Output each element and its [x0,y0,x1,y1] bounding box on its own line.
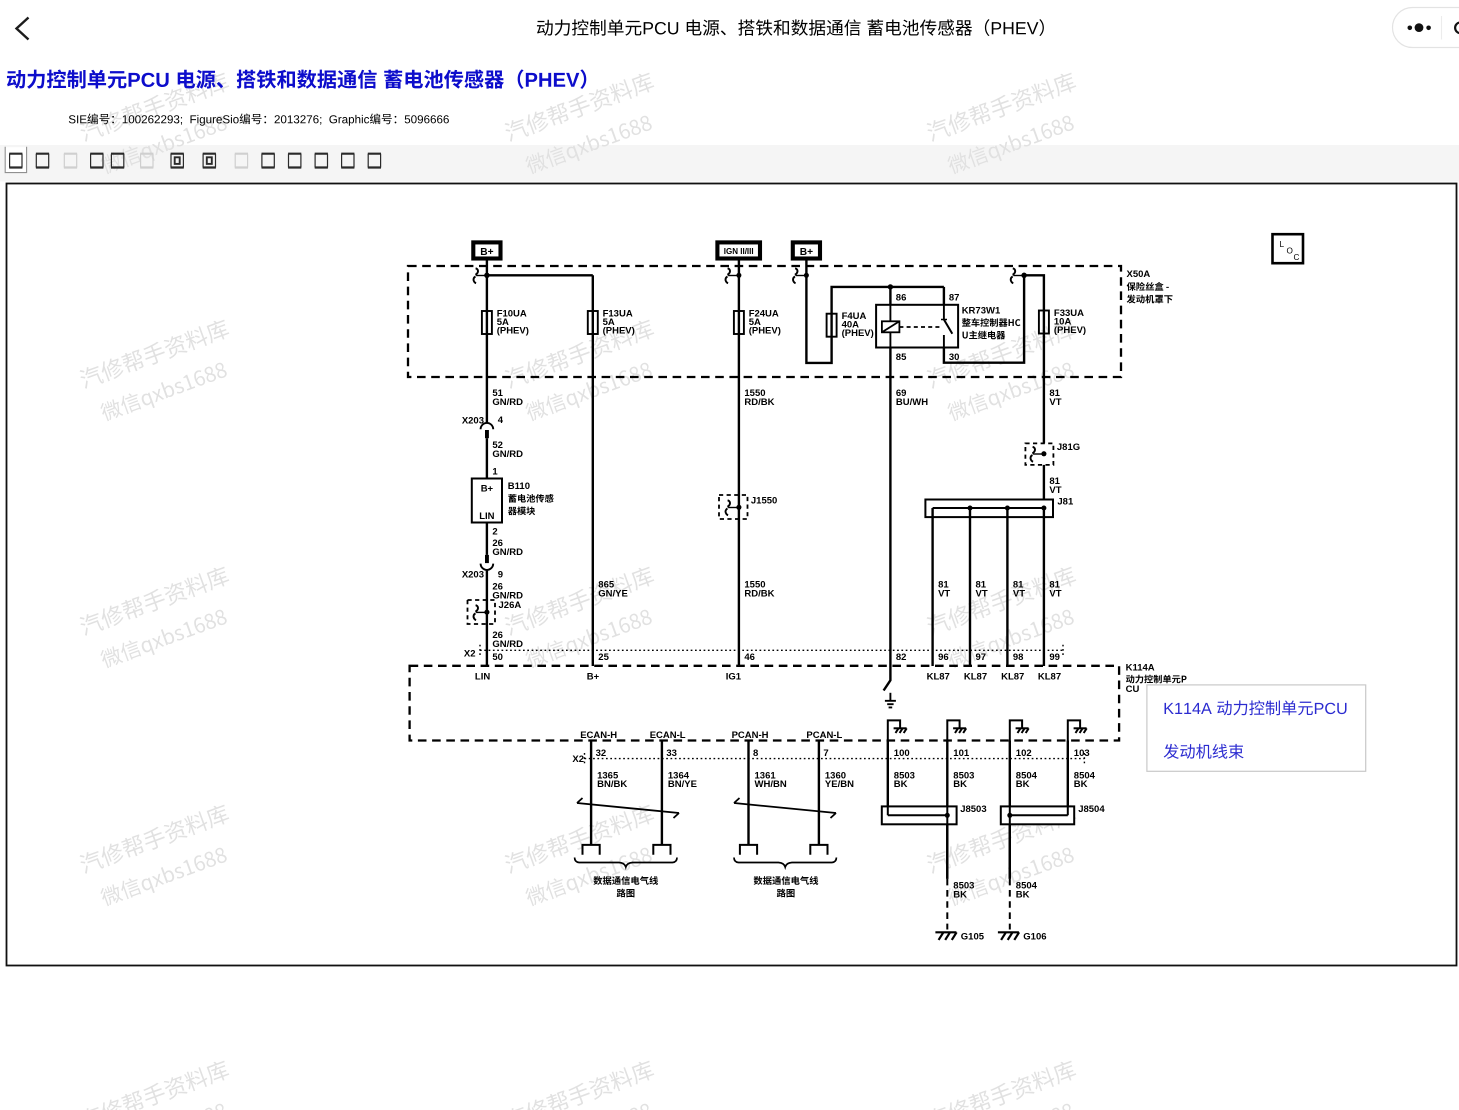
splice J26A dashed box [468,600,496,624]
relay coil [889,305,891,322]
connector clip at X50A for IGN [727,268,730,274]
svg-text:VT: VT [1049,485,1061,496]
earth ground symbol inside PCU [889,693,891,701]
wires 8504 BK from pins 102/103 [1009,741,1011,879]
svg-text:YE/BN: YE/BN [825,779,854,790]
svg-text:30: 30 [949,352,960,363]
svg-text:32: 32 [596,748,607,759]
splice pack J81 [925,500,1053,518]
svg-text:GN/YE: GN/YE [598,588,628,599]
svg-text:BN/BK: BN/BK [597,779,627,790]
page heading [7,69,586,88]
svg-text:9: 9 [498,569,503,580]
wire relay 30 output to F33UA node [944,275,1024,362]
SIE numbers line [69,113,449,125]
svg-text:KL87: KL87 [927,672,950,683]
brace PCAN [734,858,836,868]
splice J81G clip [1032,447,1035,453]
svg-text:82: 82 [896,652,907,663]
data link note ECAN [593,876,658,885]
svg-text:103: 103 [1074,748,1090,759]
fuse F24UA [734,311,744,334]
wires 8503 BK from pins 100/101 [887,741,889,816]
svg-text:X2: X2 [464,649,476,660]
svg-text:J26A: J26A [499,600,522,611]
fuse box X50A dashed outline [408,266,1121,377]
svg-text:BK: BK [953,889,967,900]
connector X203 pin 9 [485,555,489,563]
svg-text:KL87: KL87 [964,672,987,683]
svg-text:33: 33 [666,748,677,759]
svg-text:BK: BK [1016,889,1030,900]
wire to relay pin 87 [943,287,945,305]
fuse F13UA [588,311,598,334]
svg-text:B+: B+ [481,484,494,495]
svg-text:KL87: KL87 [1038,672,1061,683]
data link note PCAN [754,876,819,885]
relay KR73W1 box [876,305,958,348]
fuse F4UA [827,314,837,337]
svg-text:GN/RD: GN/RD [492,547,523,558]
wire 8503 BK to G105 [946,824,948,879]
svg-text:KR73W1: KR73W1 [962,306,1001,317]
connector X203 pin 4 [481,423,494,429]
svg-text:B+: B+ [800,247,813,258]
svg-text:X50A: X50A [1127,269,1151,280]
connector clip at X50A for B+1 [475,268,478,274]
brace ECAN [575,858,677,868]
wire 8504 BK to G106 [1009,824,1011,879]
svg-text:J81G: J81G [1057,442,1080,453]
svg-text:VT: VT [976,588,988,599]
svg-text:J81: J81 [1057,497,1074,508]
wire B+1 into fuse box [486,260,488,424]
svg-text:BK: BK [1074,779,1088,790]
svg-text:X203: X203 [462,569,484,580]
svg-text:ECAN-L: ECAN-L [650,730,686,741]
svg-text:VT: VT [1049,588,1061,599]
splice J1550 clip [727,500,730,506]
wire B+2 into fuse box [806,260,831,363]
svg-text:(PHEV): (PHEV) [497,325,529,336]
battery sensor module B110 [472,479,502,523]
svg-text:G106: G106 [1023,932,1046,943]
connector X2 dotted line (upper) [480,649,1063,651]
LOC legend box [1273,234,1304,263]
svg-text:CU: CU [1126,684,1140,695]
svg-text:B+: B+ [480,247,493,258]
svg-text:102: 102 [1016,748,1032,759]
relay switch contact [943,305,945,320]
svg-text:VT: VT [1013,588,1025,599]
svg-text:BK: BK [894,779,908,790]
splice pack J8504 [1001,806,1074,824]
fuse F10UA [482,311,492,334]
wechat capsule [1393,8,1459,48]
wire 865 GN/YE [592,275,594,666]
diagram frame [7,184,1457,966]
wire to relay pin 86 [889,287,891,305]
svg-text:GN/RD: GN/RD [492,397,523,408]
svg-text:25: 25 [598,652,609,663]
svg-text:L: L [1280,240,1285,249]
svg-text:99: 99 [1049,652,1060,663]
svg-text:IGN II/III: IGN II/III [724,247,754,256]
J81 junctions [968,506,973,511]
watermark layer [78,71,244,181]
svg-text:RD/BK: RD/BK [744,588,774,599]
svg-text:85: 85 [896,352,907,363]
svg-text:BN/YE: BN/YE [668,779,697,790]
svg-text:1: 1 [492,467,498,478]
splice J1550 dashed box [719,495,748,519]
connector X2 dotted line (lower) [585,758,1085,760]
wire 52 GN/RD [486,438,488,478]
wire to fuse F33UA [1024,275,1044,333]
svg-text:101: 101 [953,748,970,759]
svg-text:J1550: J1550 [751,496,777,507]
svg-text:X203: X203 [462,416,484,427]
svg-text:X2: X2 [572,754,584,765]
svg-text:GN/RD: GN/RD [492,449,523,460]
svg-text:B+: B+ [587,672,600,683]
svg-text:BK: BK [1016,779,1030,790]
splice J81G junction [1042,451,1047,456]
svg-text:(PHEV): (PHEV) [749,325,781,336]
svg-text:86: 86 [896,292,907,303]
ground G105 [935,931,956,933]
svg-text:C: C [1294,253,1300,262]
fuse F33UA [1039,311,1049,334]
svg-text:4: 4 [498,415,504,426]
PCU internal chassis grounds [888,720,900,740]
svg-text:50: 50 [492,652,503,663]
svg-text:IG1: IG1 [726,672,742,683]
svg-text:7: 7 [823,748,828,759]
svg-text:46: 46 [744,652,755,663]
svg-text:VT: VT [938,588,950,599]
svg-text:98: 98 [1013,652,1024,663]
wire F4UA to relay feed [832,287,944,337]
svg-text:BK: BK [953,779,967,790]
svg-text:(PHEV): (PHEV) [603,325,635,336]
svg-text:(PHEV): (PHEV) [1054,325,1086,336]
PCU internal ground from pin 82 [884,666,891,691]
svg-text:K114A: K114A [1126,663,1155,674]
svg-text:(PHEV): (PHEV) [842,328,874,339]
svg-text:ECAN-H: ECAN-H [580,730,617,741]
CAN terminators [583,845,600,855]
splice J26A junction [485,610,490,615]
svg-text:WH/BN: WH/BN [755,779,787,790]
svg-text:KL87: KL87 [1001,672,1024,683]
splice J81G dashed box [1025,443,1053,465]
wire 26 GN/RD to J26A [486,570,488,666]
toolbar icons [5,147,26,172]
svg-text:G105: G105 [961,932,985,943]
svg-text:J8503: J8503 [960,804,986,815]
junction relay coil feed [888,284,893,289]
connector clip at X50A for B+2 [795,268,798,274]
svg-text:8: 8 [753,748,758,759]
svg-text:96: 96 [938,652,949,663]
svg-text:PCAN-H: PCAN-H [732,730,769,741]
svg-text:87: 87 [949,292,960,303]
top bar title [537,19,1044,36]
svg-text:PCAN-L: PCAN-L [806,730,842,741]
back chevron [17,18,29,40]
svg-text:GN/RD: GN/RD [492,639,523,650]
wires 81 VT from J81 to KL87 pins [931,508,933,666]
twisted pair symbol PCAN [734,798,836,818]
PCU module K114A dashed box [410,666,1120,741]
svg-text:LIN: LIN [479,511,494,522]
relay actuating dashed link [899,326,941,328]
svg-text:BU/WH: BU/WH [896,397,928,408]
svg-text:O: O [1287,246,1293,255]
tooltip popup K114A [1147,685,1366,771]
svg-text:100: 100 [894,748,910,759]
power feed IGN II/III node [717,242,760,258]
wire relay 85 to PCU pin 82 [889,348,891,667]
wire 26 GN/RD (upper) [486,523,488,555]
connector clip at F33UA node [1012,268,1015,274]
toolbar strip background [0,145,1459,182]
splice J1550 junction [737,505,742,510]
power feed B+ node 2 [793,242,820,258]
ground G106 [998,931,1019,933]
wire 81 VT to J81 [1043,465,1045,508]
splice J26A clip [475,605,478,611]
wire 81 VT from F33UA [1043,334,1045,444]
svg-text:VT: VT [1049,397,1061,408]
wire 1550 RD/BK upper [738,260,740,667]
svg-text:B110: B110 [508,481,530,492]
junction B+1 branch [484,273,489,278]
svg-text:97: 97 [976,652,987,663]
junction F33UA feed [1021,273,1026,278]
wire branch to F13UA [487,274,593,276]
svg-text:J8504: J8504 [1078,804,1105,815]
svg-text:2: 2 [492,527,497,538]
power feed B+ node 1 [473,242,500,258]
splice pack J8503 [882,806,957,824]
svg-text:LIN: LIN [475,672,490,683]
svg-text:RD/BK: RD/BK [744,397,774,408]
CAN wires [590,741,592,845]
twisted pair symbol ECAN [577,798,679,818]
